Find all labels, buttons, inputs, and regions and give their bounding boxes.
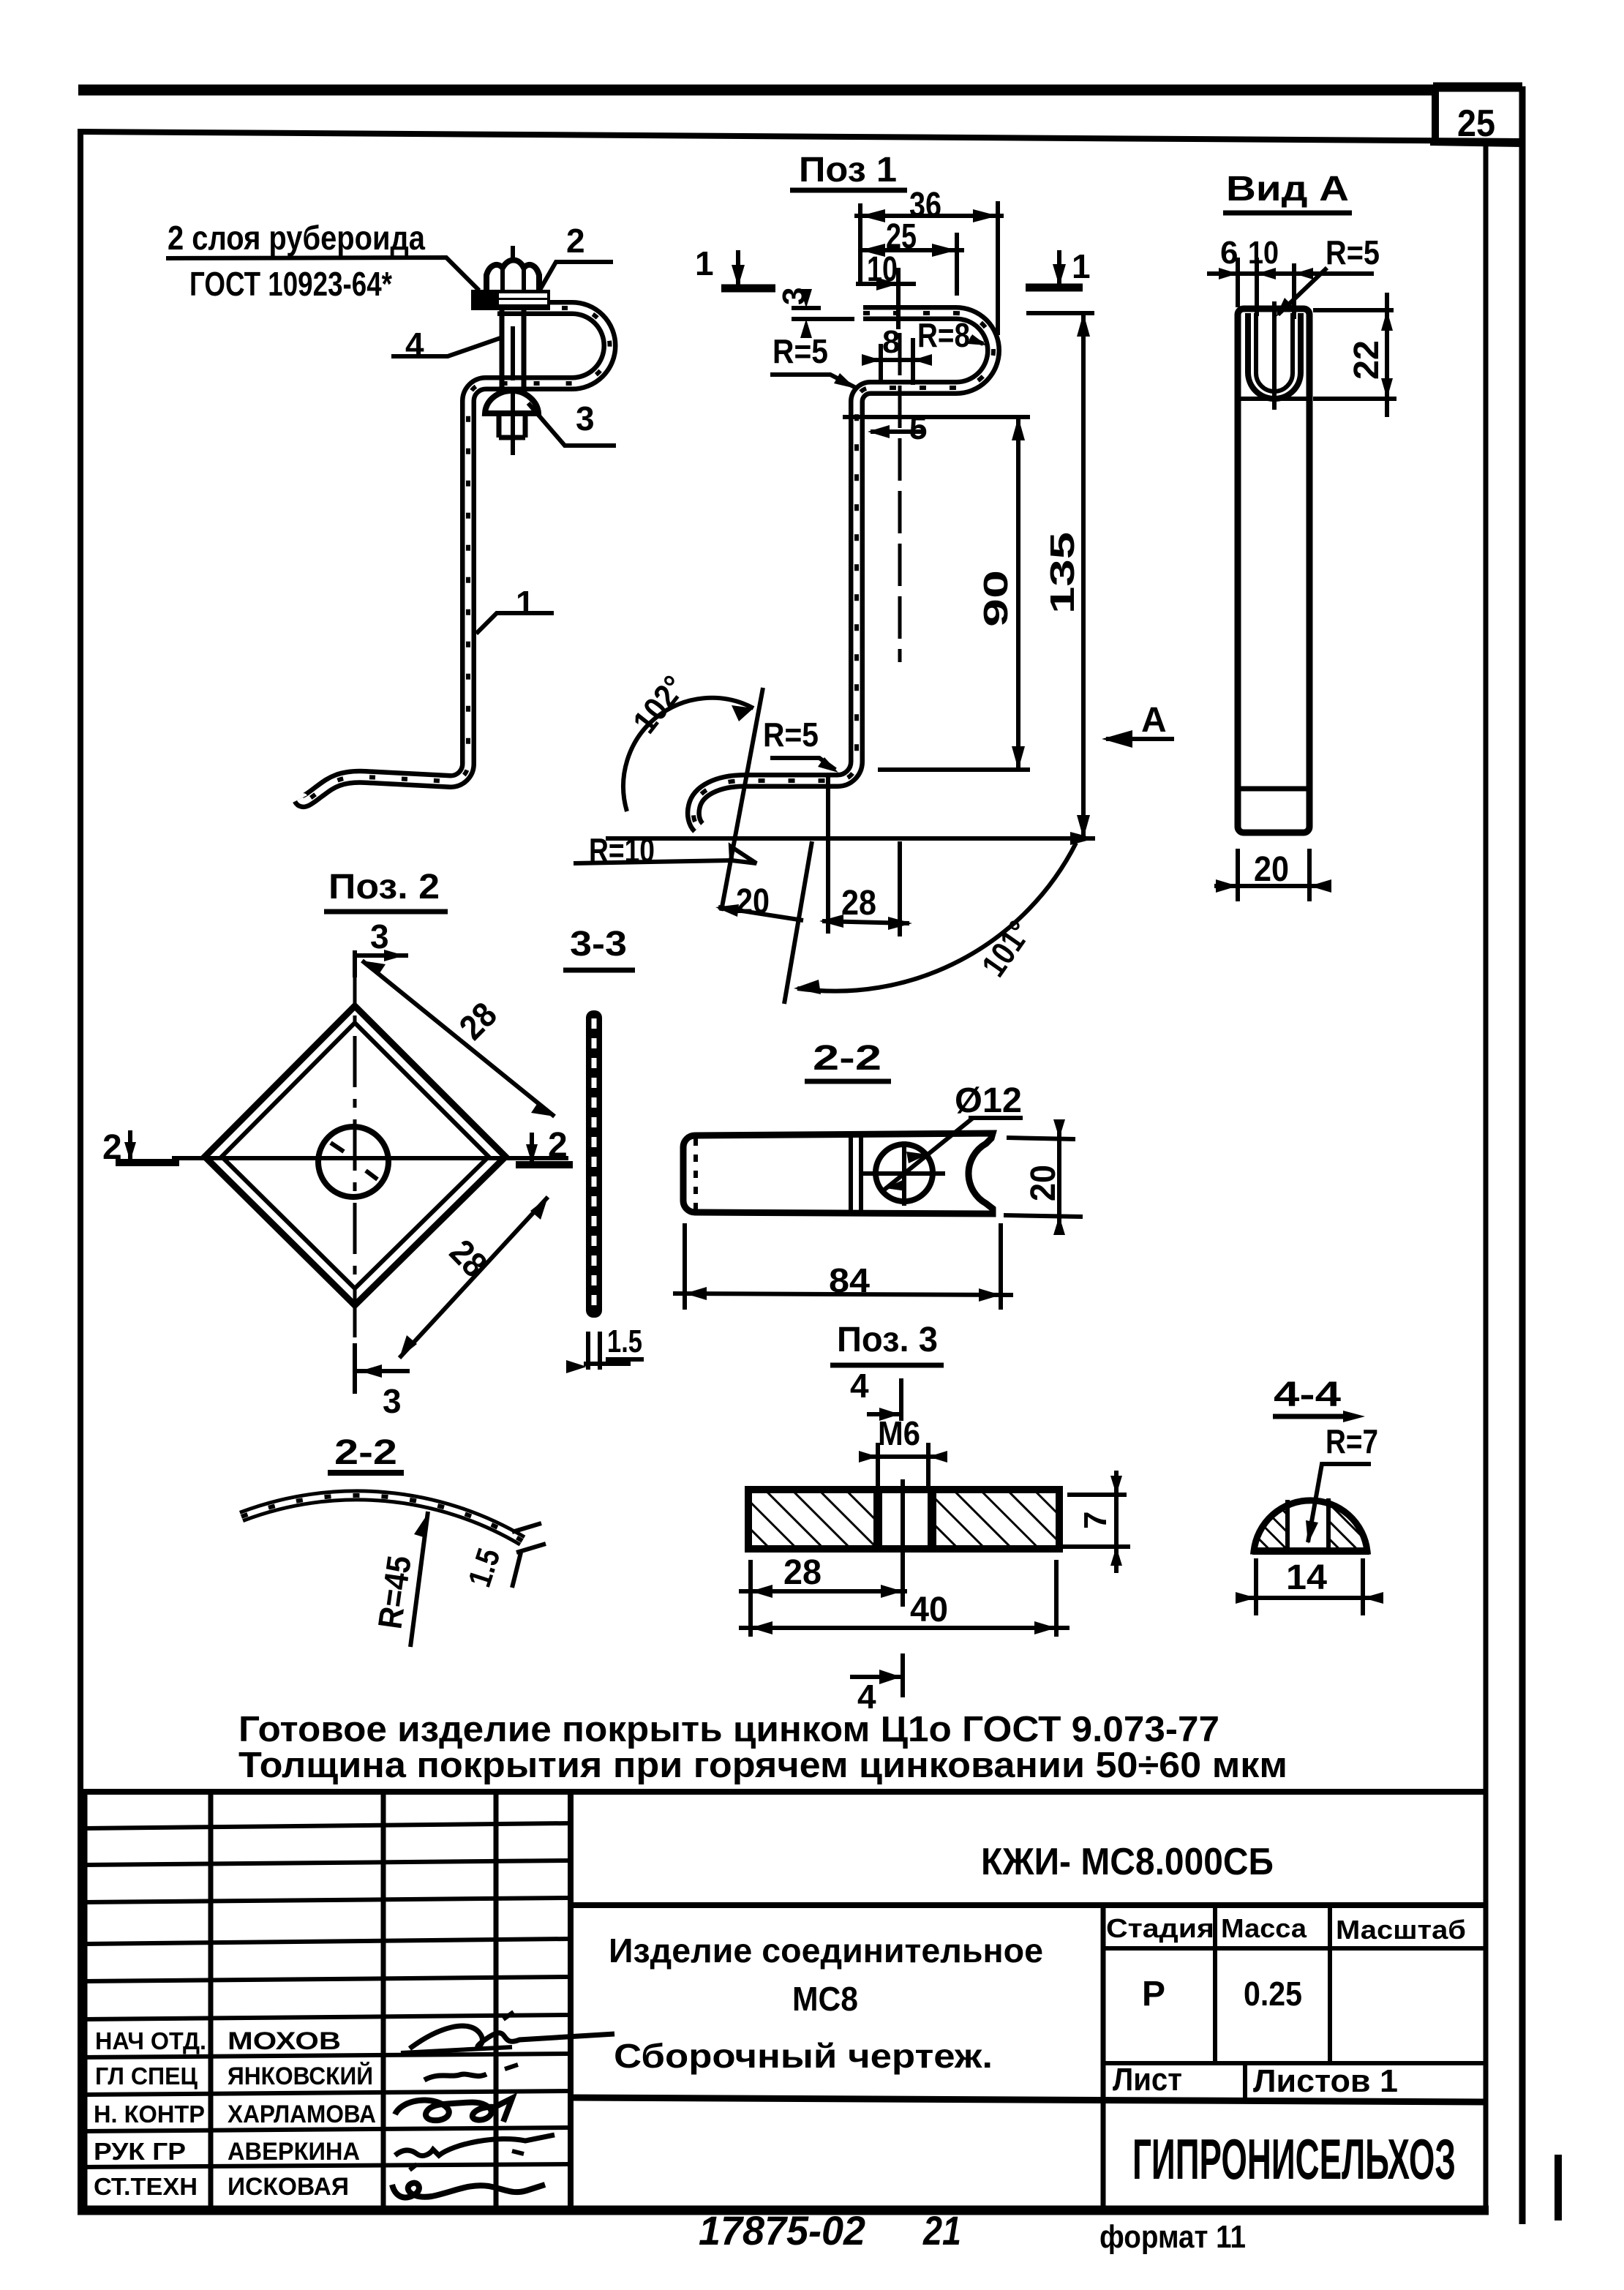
angle 101 arc: [797, 843, 1076, 991]
svg-text:формат 11: формат 11: [1099, 2219, 1246, 2255]
90 top extension line: [843, 415, 1030, 419]
caption underline: [324, 909, 448, 915]
leader 4: [391, 338, 500, 356]
svg-text:1.5: 1.5: [607, 1324, 642, 1359]
svg-text:22: 22: [1347, 340, 1386, 380]
SECTION 4-4 (half disc): [1236, 1375, 1383, 1615]
dim 20 right: [1004, 1119, 1083, 1235]
svg-text:3: 3: [383, 1382, 402, 1420]
dim 90 vertical line: [1016, 417, 1020, 770]
leader 3: [528, 403, 616, 446]
svg-text:КЖИ- МС8.000СБ: КЖИ- МС8.000СБ: [981, 1841, 1274, 1883]
dim 5 arrow: [868, 425, 924, 438]
bottom right artifact mark: [1555, 2155, 1562, 2220]
slot rounded: [1248, 313, 1301, 399]
SECTION 2-2 (strip with hole, top view): [673, 1039, 1083, 1310]
svg-text:28: 28: [841, 884, 876, 923]
svg-text:0.25: 0.25: [1244, 1975, 1302, 2013]
centerline vertical dashed: [898, 333, 902, 662]
svg-text:Толщина покрытия при горячем ц: Толщина покрытия при горячем цинковании …: [238, 1746, 1287, 1785]
R=8 arrow to inner curve: [970, 338, 983, 344]
bend boundary double line: [849, 1135, 853, 1212]
svg-text:А: А: [1141, 701, 1167, 740]
svg-text:Поз. 2: Поз. 2: [328, 868, 440, 906]
assembly strip: U loop + vertical + bottom curl: [300, 308, 610, 801]
strip outline with fork notch: [683, 1133, 993, 1214]
135 top extension line: [1026, 311, 1094, 315]
leader 2: [539, 262, 613, 291]
right hatched part: [936, 1493, 1056, 1545]
leader underline from label to washer: [166, 258, 479, 290]
svg-text:АВЕРКИНА: АВЕРКИНА: [228, 2138, 360, 2166]
svg-text:2 слоя рубероида: 2 слоя рубероида: [168, 219, 425, 257]
svg-text:Вид А: Вид А: [1226, 170, 1349, 209]
second top line: [80, 132, 1522, 141]
washer (rubberoid layers): [471, 290, 550, 310]
slot bottom line across strip: [1238, 397, 1309, 401]
svg-text:1: 1: [516, 584, 535, 622]
dim 84: [673, 1223, 1013, 1310]
svg-text:20: 20: [1254, 850, 1289, 889]
head shaft: [499, 414, 525, 438]
svg-text:135: 135: [1043, 532, 1081, 614]
svg-text:Ø12: Ø12: [955, 1081, 1022, 1120]
left border: [78, 129, 83, 2210]
strip outline: [1238, 309, 1309, 833]
svg-text:ГЛ СПЕЦ: ГЛ СПЕЦ: [95, 2062, 198, 2090]
caption underline: [328, 1470, 404, 1476]
svg-text:3: 3: [370, 917, 389, 956]
1.5 ticks: [512, 1523, 541, 1532]
signature Исковая: [392, 2183, 545, 2198]
svg-text:17875-02: 17875-02: [699, 2207, 865, 2253]
half disc hatched fill: [1254, 1501, 1367, 1551]
NOTES: [238, 1710, 1287, 1785]
bar inner white dashes: [592, 1018, 597, 1310]
svg-text:28: 28: [783, 1553, 822, 1592]
second inclined line: [784, 841, 812, 1004]
svg-text:R=5: R=5: [1326, 233, 1380, 271]
svg-text:Листов 1: Листов 1: [1253, 2063, 1398, 2099]
svg-text:2: 2: [548, 1126, 568, 1165]
svg-text:14: 14: [1286, 1558, 1327, 1597]
left end inner line: [693, 1138, 698, 1209]
mushroom head: [485, 391, 538, 413]
angle 102 arc: [623, 698, 753, 811]
svg-text:Готовое изделие покрыть цинком: Готовое изделие покрыть цинком Ц1о ГОСТ …: [238, 1710, 1219, 1749]
svg-text:Стадия: Стадия: [1106, 1913, 1214, 1943]
diamond inner: [222, 1023, 489, 1288]
svg-text:1: 1: [1072, 247, 1091, 285]
R=5 leader: [770, 375, 856, 388]
svg-text:МОХОВ: МОХОВ: [228, 2027, 341, 2055]
svg-text:6: 6: [1220, 235, 1238, 271]
svg-text:Поз. 3: Поз. 3: [837, 1321, 938, 1359]
section mark 1 left: [695, 244, 775, 288]
svg-text:84: 84: [829, 1261, 870, 1299]
extension line V1: [826, 777, 830, 934]
arc strip double: [241, 1495, 522, 1541]
leader 1: [476, 613, 554, 634]
vertical centerline: [353, 953, 357, 1364]
thread band right: [928, 1491, 936, 1547]
top thick border line: [78, 85, 1435, 96]
svg-text:Масса: Масса: [1221, 1913, 1307, 1943]
dim 22 vertical line: [1385, 293, 1389, 417]
nut top centerline: [511, 246, 515, 258]
bar centerline: [901, 1479, 905, 1607]
POS 1 VIEW (hook strip side view): [574, 151, 1174, 1004]
signature Янковский: [424, 2074, 486, 2080]
svg-text:2: 2: [566, 222, 585, 260]
designation cell bottom line: [571, 1902, 1486, 1908]
svg-text:Н. КОНТР: Н. КОНТР: [94, 2101, 205, 2128]
title block outer top line: [83, 1789, 1486, 1795]
R=5 bottom leader: [770, 758, 835, 770]
caption underline: [830, 1363, 944, 1368]
bar outline: [748, 1490, 1059, 1549]
svg-text:3-3: 3-3: [570, 925, 627, 964]
svg-text:СТ.ТЕХН: СТ.ТЕХН: [94, 2173, 198, 2200]
svg-text:7: 7: [1078, 1512, 1113, 1529]
bolt shaft: [502, 310, 524, 391]
svg-text:Масштаб: Масштаб: [1336, 1915, 1466, 1945]
name cell bottom line: [571, 2098, 1486, 2102]
svg-text:4-4: 4-4: [1274, 1375, 1341, 1414]
R=7 leader: [1308, 1464, 1371, 1542]
bend axis inclined line: [721, 688, 763, 911]
white middle band: [1288, 1500, 1328, 1548]
hole circle: [876, 1144, 933, 1201]
TITLE BLOCK: [83, 1792, 1486, 2210]
center circle: [318, 1127, 388, 1197]
caption underline: [805, 1079, 891, 1084]
svg-text:20: 20: [1024, 1165, 1063, 1201]
90 bottom extension line: [878, 767, 1030, 772]
right outer border: [1519, 86, 1526, 2224]
diamond outer: [205, 1006, 505, 1305]
R=10 leader with open triangle: [574, 860, 732, 863]
signatures: [392, 2012, 614, 2198]
svg-text:8: 8: [882, 324, 900, 360]
svg-text:НАЧ ОТД.: НАЧ ОТД.: [95, 2027, 206, 2054]
svg-text:R=5: R=5: [763, 716, 819, 754]
svg-text:МС8: МС8: [792, 1980, 858, 2018]
left table row lines: [85, 1823, 571, 1828]
svg-text:2-2: 2-2: [334, 1433, 397, 1472]
page number box: [1432, 86, 1439, 143]
dim 7 right: [1061, 1471, 1130, 1573]
strip inner hatch dashes: [693, 313, 993, 827]
dim 135 vertical line: [1081, 313, 1086, 838]
title block texts: [94, 1841, 1466, 2201]
left hatched part: [752, 1493, 873, 1545]
svg-text:ИСКОВАЯ: ИСКОВАЯ: [228, 2173, 349, 2201]
POS 3 (hatched bar section): [739, 1321, 1130, 1716]
VID A VIEW (strip front view): [1207, 170, 1396, 901]
svg-text:40: 40: [910, 1591, 948, 1629]
caption underline: [563, 968, 635, 973]
thin bar: [586, 1010, 602, 1318]
radius line R=45: [410, 1512, 428, 1647]
svg-text:R=8: R=8: [917, 316, 970, 354]
hex nut: [486, 260, 539, 295]
signature Харламова: [395, 2098, 512, 2122]
bottom outside text: [699, 2207, 1246, 2255]
R=5 leader vida: [1278, 268, 1327, 315]
dims 6,10 line: [1207, 258, 1374, 319]
svg-text:Сборочный чертеж.: Сборочный чертеж.: [614, 2037, 993, 2075]
horizontal centerline: [172, 1156, 568, 1160]
view A arrow: [1106, 737, 1174, 741]
caption underline: [790, 188, 907, 193]
left table column lines: [83, 1792, 88, 2210]
svg-text:90: 90: [977, 570, 1015, 627]
dim 10 line: [856, 268, 916, 329]
svg-text:ГИПРОНИСЕЛЬХОЗ: ГИПРОНИСЕЛЬХОЗ: [1132, 2127, 1456, 2191]
svg-text:10: 10: [1248, 235, 1279, 271]
slot centerline: [1272, 301, 1277, 410]
svg-text:2-2: 2-2: [813, 1039, 881, 1078]
dim 8 ticks: [862, 338, 932, 385]
ASSEMBLY VIEW (left): [166, 219, 616, 801]
signature Мохов: [410, 2026, 614, 2049]
svg-text:Лист: Лист: [1113, 2062, 1182, 2098]
svg-text:1: 1: [695, 244, 714, 282]
svg-text:21: 21: [922, 2207, 961, 2253]
caption underline: [1223, 211, 1352, 216]
svg-text:ЯНКОВСКИЙ: ЯНКОВСКИЙ: [228, 2062, 373, 2090]
hole crosshair: [863, 1171, 945, 1176]
svg-text:Изделие соединительное: Изделие соединительное: [609, 1932, 1043, 1970]
svg-text:R=5: R=5: [772, 332, 828, 370]
stage/mass/scale column: [1101, 1905, 1106, 2206]
svg-text:4: 4: [850, 1367, 869, 1405]
dim 20 bottom ticks: [1214, 849, 1331, 901]
135 bottom extension line: [606, 836, 1095, 841]
POS 2 VIEW (diamond plate): [102, 868, 573, 1420]
section mark 1 right: [1026, 247, 1091, 288]
centerline below: [511, 391, 515, 455]
strip body double line: [693, 313, 993, 827]
svg-text:Поз 1: Поз 1: [799, 151, 897, 189]
section mark 4 bottom: [901, 1653, 905, 1697]
d12 leader: [881, 1118, 973, 1193]
SECTION 3-3 (thin plate edge): [563, 925, 644, 1373]
dim 25 line: [860, 233, 964, 296]
svg-text:ГОСТ 10923-64*: ГОСТ 10923-64*: [189, 265, 392, 303]
dim 36 line: [854, 201, 1004, 335]
dim 22 extension lines: [1313, 308, 1394, 312]
half disc outline: [1254, 1501, 1367, 1551]
right inner border: [1484, 143, 1489, 2210]
dim 3 ticks: [792, 289, 854, 338]
SECTION 2-2 ARC (curved plate): [241, 1433, 546, 1647]
dim 1.5 ticks: [584, 1332, 631, 1370]
dim 28 line: [822, 921, 909, 923]
hole cross ticks: [331, 1143, 377, 1179]
dim 20 line: [718, 907, 803, 920]
caption underline with arrow: [1273, 1414, 1355, 1419]
svg-text:ХАРЛАМОВА: ХАРЛАМОВА: [228, 2101, 376, 2128]
svg-text:R=7: R=7: [1326, 1422, 1378, 1460]
М6 dim: [859, 1443, 947, 1488]
signature Аверкина: [395, 2135, 555, 2155]
svg-text:М6: М6: [878, 1414, 920, 1452]
svg-text:РУК ГР: РУК ГР: [94, 2138, 186, 2165]
strip centerline extension: [898, 841, 902, 936]
svg-text:25: 25: [1457, 102, 1495, 145]
svg-text:Р: Р: [1142, 1975, 1165, 2013]
thread band left: [873, 1491, 882, 1547]
disc base reinforce: [1252, 1547, 1369, 1555]
bottom end line across strip: [1238, 787, 1309, 792]
svg-text:3: 3: [576, 399, 595, 438]
bottom border: [78, 2206, 1489, 2215]
